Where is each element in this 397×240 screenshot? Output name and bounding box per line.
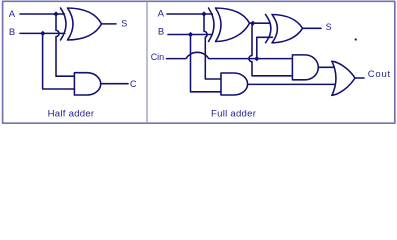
wire XOR U1 output xyxy=(102,23,117,25)
node: junction dot on XOR U3 output xyxy=(250,21,255,26)
wire B branch down to AND U2 xyxy=(43,33,75,89)
svg-text:S: S xyxy=(121,19,127,29)
node: junction dot on A wire xyxy=(53,11,58,16)
wire OR U7 output xyxy=(355,77,364,79)
wire XOR U6 output xyxy=(303,27,322,29)
AND gate U5 (Cin and XOR) xyxy=(292,55,318,80)
wire A to XOR U3 xyxy=(167,13,213,15)
XOR gate U1 (sum) xyxy=(61,8,67,40)
svg-text:C: C xyxy=(130,79,137,89)
outer frame xyxy=(3,1,395,123)
svg-text:Cin: Cin xyxy=(151,52,165,62)
svg-text:B: B xyxy=(158,26,164,37)
svg-text:Full adder: Full adder xyxy=(211,109,257,120)
wire B to XOR U1 xyxy=(20,32,65,34)
wire XOR U3 branch down to AND U5 (hops over Cin wire) xyxy=(249,23,292,76)
wire B branch down to AND U4 xyxy=(191,35,222,92)
node: junction dot on A wire xyxy=(201,11,206,16)
AND gate U4 (A and B) xyxy=(221,73,248,95)
stray period mark xyxy=(355,38,357,40)
wire A branch down to AND U4 (hops over B wire) xyxy=(204,14,221,79)
panel divider xyxy=(146,2,148,122)
AND gate U2 (carry) xyxy=(74,73,100,95)
wire AND U5 output to OR U7 xyxy=(318,66,334,68)
wire A branch down to AND U2 (hops over B wire) xyxy=(56,14,74,76)
svg-text:Cout: Cout xyxy=(368,69,391,80)
svg-text:B: B xyxy=(9,27,15,38)
wire Cin branch up to XOR U6 xyxy=(257,37,273,58)
svg-text:A: A xyxy=(158,9,165,20)
node: junction dot on B wire xyxy=(188,32,193,37)
XOR gate U6 (sum) xyxy=(266,15,271,43)
wire XOR U3 output to XOR U6 xyxy=(250,22,271,24)
svg-text:Half adder: Half adder xyxy=(48,109,95,120)
wire A to XOR U1 xyxy=(20,13,65,15)
XOR gate U3 (A xor B) xyxy=(209,8,215,42)
svg-text:A: A xyxy=(9,9,16,20)
wire AND U4 output to OR U7 xyxy=(248,83,335,85)
node: junction dot on Cin wire xyxy=(254,56,259,61)
OR gate U7 (carry out) xyxy=(332,61,336,95)
wire Cin (bumps over A and B branch verticals) to AND U5 xyxy=(167,52,293,58)
wire B to XOR U3 xyxy=(168,34,212,36)
node: junction dot on B wire xyxy=(40,31,45,36)
svg-text:S: S xyxy=(326,22,332,32)
wire AND U2 output xyxy=(101,83,128,85)
